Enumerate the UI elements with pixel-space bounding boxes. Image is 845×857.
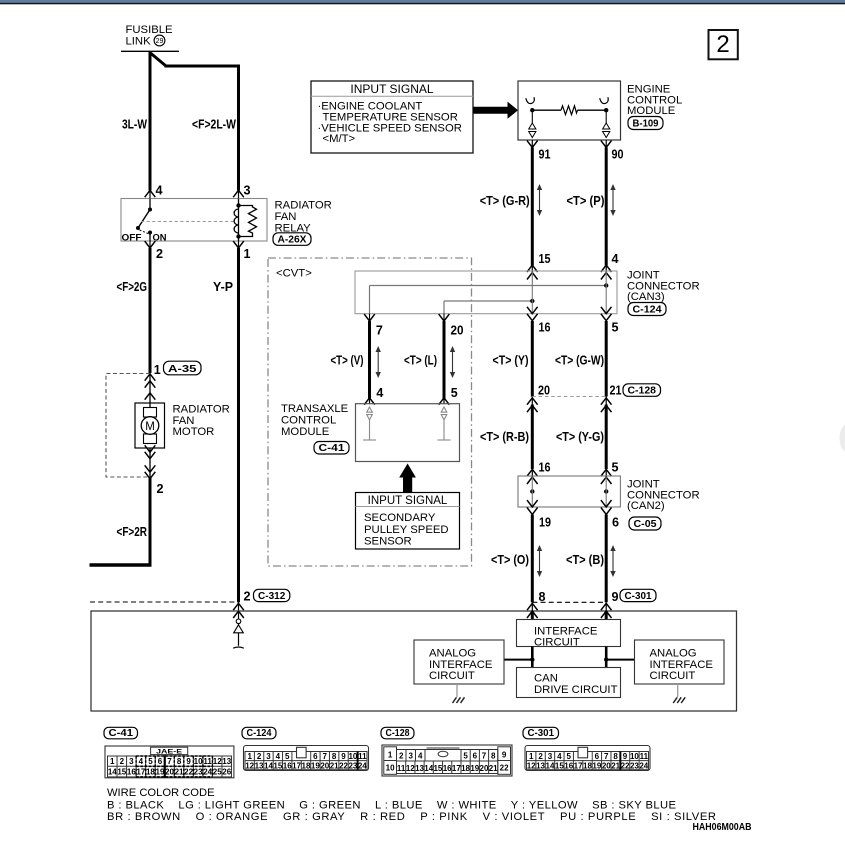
svg-text:9: 9 (341, 752, 346, 761)
harness arrow O (537, 545, 542, 577)
radiator fan relay box (121, 199, 267, 242)
connector pill C-124 bottom (242, 727, 276, 739)
svg-text:ANALOG: ANALOG (429, 648, 476, 660)
svg-text:RADIATOR: RADIATOR (173, 404, 230, 416)
svg-text:17: 17 (574, 761, 583, 770)
ECM terminal curl left (526, 97, 535, 103)
svg-text:21: 21 (175, 768, 184, 777)
svg-text:5: 5 (567, 752, 572, 761)
svg-text:1: 1 (110, 757, 115, 766)
svg-text:<T> (G-R): <T> (G-R) (480, 194, 530, 208)
meter junction dots (530, 657, 534, 661)
svg-text:4: 4 (418, 752, 423, 761)
C-128 chevrons left (527, 398, 538, 405)
relay coil wire (238, 199, 240, 242)
connector pill B-109 (628, 117, 663, 130)
svg-text:WIRE COLOR CODE: WIRE COLOR CODE (107, 787, 215, 799)
input signal title rule (311, 95, 473, 97)
svg-text:C-41: C-41 (109, 728, 134, 739)
meter wires from pins 8/9 (531, 602, 533, 611)
svg-text:2: 2 (244, 590, 251, 604)
ECM terminal dots (530, 108, 534, 112)
svg-text:4: 4 (276, 752, 281, 761)
motor dashed enclosure (106, 374, 150, 478)
svg-text:INTERFACE: INTERFACE (534, 625, 598, 637)
svg-text:13: 13 (536, 761, 545, 770)
svg-text:3: 3 (548, 752, 553, 761)
svg-text:4: 4 (376, 386, 383, 400)
svg-text:6: 6 (313, 752, 318, 761)
svg-text:5: 5 (148, 757, 153, 766)
connector pill C-41 (314, 442, 349, 455)
svg-text:(CAN2): (CAN2) (627, 500, 665, 512)
input signal box bottom (356, 493, 460, 550)
page dashed boundary left (90, 601, 239, 603)
svg-text:MOTOR: MOTOR (173, 426, 215, 438)
svg-text:C-128: C-128 (386, 728, 410, 739)
svg-text:11: 11 (397, 764, 406, 773)
connector pill C-312 (254, 589, 290, 601)
CAN2 pass-through thin wires (531, 477, 533, 507)
svg-text:22: 22 (500, 764, 509, 773)
relay resistor (239, 206, 257, 237)
svg-text:5: 5 (612, 321, 619, 335)
svg-text:13: 13 (415, 764, 424, 773)
TCM internal symbol right (438, 407, 451, 440)
ECM pin chevrons (531, 140, 533, 148)
svg-text:17: 17 (136, 768, 145, 777)
svg-text:21: 21 (610, 383, 622, 397)
fusible link circled 29 (154, 35, 165, 46)
C-128 chevrons right (601, 398, 612, 405)
svg-text:<T> (R-B): <T> (R-B) (480, 430, 529, 444)
svg-text:FAN: FAN (275, 211, 297, 223)
svg-text:15: 15 (273, 761, 282, 770)
ECM shield triangles right (605, 110, 607, 123)
svg-text:2: 2 (156, 247, 163, 261)
svg-text:<T> (G-W): <T> (G-W) (555, 354, 604, 368)
svg-text:<T> (P): <T> (P) (567, 194, 605, 208)
svg-text:6: 6 (158, 757, 163, 766)
C-312 chevrons (233, 603, 244, 610)
CVT dash-dot enclosure (268, 258, 472, 566)
wire Y-P (237, 248, 240, 602)
ECM shield triangles left (531, 110, 533, 123)
svg-text:DRIVE CIRCUIT: DRIVE CIRCUIT (534, 684, 618, 696)
svg-text:3L-W: 3L-W (122, 118, 147, 132)
svg-text:<T> (L): <T> (L) (404, 354, 437, 368)
page dashed boundary right (532, 601, 606, 603)
ground right analog (673, 684, 685, 703)
svg-text:5: 5 (285, 752, 290, 761)
motor circle M (141, 417, 159, 435)
svg-text:ANALOG: ANALOG (650, 648, 697, 660)
svg-text:INTERFACE: INTERFACE (650, 659, 714, 671)
svg-text:4: 4 (557, 752, 562, 761)
svg-text:2: 2 (257, 752, 262, 761)
relay switch contact dots (148, 208, 152, 212)
harness arrow B (610, 545, 615, 577)
svg-text:10: 10 (348, 752, 357, 761)
harness arrow G-R (537, 184, 542, 216)
svg-text:17: 17 (292, 761, 301, 770)
svg-text:11: 11 (358, 752, 367, 761)
meter outer box (91, 611, 737, 711)
connector pill C-128 mid (623, 384, 661, 397)
svg-text:3: 3 (266, 752, 271, 761)
svg-text:<M/T>: <M/T> (323, 133, 356, 145)
svg-text:15: 15 (539, 252, 551, 266)
svg-text:TRANSAXLE: TRANSAXLE (281, 403, 349, 415)
node pin1 A-35 chevrons (145, 374, 156, 381)
svg-text:13: 13 (222, 757, 231, 766)
svg-text:20: 20 (451, 324, 464, 338)
svg-text:11: 11 (203, 757, 212, 766)
svg-text:MODULE: MODULE (281, 426, 330, 438)
TCM wire 7 chevron (369, 314, 371, 322)
wire to left edge (90, 563, 152, 566)
ECM terminal curl right (600, 97, 609, 103)
joint connector CAN3 box (355, 271, 617, 314)
chevron above motor (145, 393, 156, 400)
harness arrow V (376, 346, 381, 378)
svg-text:<T> (Y-G): <T> (Y-G) (556, 430, 604, 444)
ground bar (233, 647, 244, 648)
svg-text:9: 9 (186, 757, 191, 766)
can drive circuit box (517, 668, 621, 698)
svg-text:C-312: C-312 (258, 591, 286, 602)
svg-text:18: 18 (583, 761, 592, 770)
svg-text:23: 23 (630, 761, 639, 770)
svg-text:FUSIBLE: FUSIBLE (126, 24, 174, 36)
TCM wire 20 chevron (443, 314, 445, 322)
svg-text:6: 6 (473, 752, 478, 761)
svg-text:C-124: C-124 (633, 304, 662, 316)
relay internal dashed link (141, 221, 234, 223)
connector pill A-35 (164, 361, 202, 375)
motor brush top (144, 408, 157, 418)
svg-text:2: 2 (120, 757, 125, 766)
svg-text:RADIATOR: RADIATOR (275, 200, 332, 212)
svg-text:4: 4 (156, 184, 163, 198)
svg-text:2: 2 (157, 482, 164, 496)
svg-text:3: 3 (129, 757, 134, 766)
svg-text:25: 25 (213, 768, 222, 777)
svg-text:<F>2R: <F>2R (117, 525, 148, 539)
svg-text:20: 20 (538, 383, 550, 397)
svg-text:8: 8 (539, 590, 546, 604)
CAN3 pass-through thin wires (531, 272, 533, 314)
svg-text:7: 7 (376, 324, 383, 338)
svg-text:<T> (B): <T> (B) (566, 553, 604, 567)
svg-text:C-301: C-301 (625, 591, 653, 602)
CAN3 bus line A (370, 285, 607, 287)
svg-text:19: 19 (539, 516, 551, 530)
CAN3 bus dots (604, 283, 608, 287)
svg-text:A-26X: A-26X (278, 234, 307, 246)
svg-text:1: 1 (388, 751, 393, 760)
svg-text:2: 2 (538, 752, 543, 761)
TCM wire left (368, 321, 371, 399)
relay switch blade (138, 210, 150, 229)
svg-text:14: 14 (424, 764, 433, 773)
wire below C-312 (238, 603, 240, 646)
svg-text:5: 5 (451, 386, 458, 400)
svg-text:24: 24 (639, 761, 648, 770)
svg-text:<T> (Y): <T> (Y) (493, 354, 529, 368)
svg-text:26: 26 (222, 768, 231, 777)
svg-text:14: 14 (546, 761, 555, 770)
svg-text:15: 15 (117, 768, 126, 777)
connector pill C-301 mid (620, 589, 656, 601)
svg-text:CIRCUIT: CIRCUIT (650, 670, 696, 682)
svg-text:3: 3 (244, 184, 251, 198)
header black rule (0, 3, 845, 5)
svg-text:HAH06M00AB: HAH06M00AB (693, 822, 752, 833)
chevrons at dashed junction (145, 465, 156, 472)
svg-text:3: 3 (409, 752, 414, 761)
wire 3L-W vertical (149, 51, 152, 190)
svg-text:16: 16 (564, 761, 573, 770)
svg-text:C-301: C-301 (528, 728, 555, 739)
ground left analog (453, 684, 465, 703)
CAN2 exit chevrons (527, 500, 538, 507)
svg-text:7: 7 (604, 752, 609, 761)
svg-text:21: 21 (330, 761, 339, 770)
svg-text:9: 9 (502, 751, 507, 760)
svg-text:C-05: C-05 (634, 518, 657, 530)
svg-text:23: 23 (348, 761, 357, 770)
relay connector pill A-26X (273, 233, 311, 246)
svg-text:INTERFACE: INTERFACE (429, 659, 493, 671)
svg-text:10: 10 (194, 757, 203, 766)
svg-text:6: 6 (612, 516, 619, 530)
svg-text:6: 6 (595, 752, 600, 761)
svg-text:C-124: C-124 (247, 728, 272, 739)
svg-text:19: 19 (156, 768, 165, 777)
svg-text:JAE-E: JAE-E (156, 749, 183, 756)
relay switch dashed throw (140, 230, 149, 234)
pin 1 chevron (238, 241, 240, 249)
svg-text:CAN: CAN (534, 673, 558, 685)
svg-text:13: 13 (255, 761, 264, 770)
svg-text:7: 7 (167, 757, 172, 766)
svg-text:<T> (O): <T> (O) (491, 553, 529, 567)
svg-text:INPUT SIGNAL: INPUT SIGNAL (368, 495, 448, 507)
svg-text:BR : BROWN O : ORANGE GR: BR : BROWN O : ORANGE GR : GRAY R : RED … (107, 811, 716, 823)
svg-text:14: 14 (108, 768, 117, 777)
svg-text:10: 10 (630, 752, 639, 761)
ECM internal wire + resistor (532, 109, 561, 111)
svg-text:14: 14 (264, 761, 273, 770)
svg-text:<CVT>: <CVT> (276, 268, 312, 280)
svg-text:16: 16 (539, 321, 551, 335)
svg-text:M: M (145, 421, 155, 433)
svg-text:29: 29 (156, 38, 164, 45)
svg-text:5: 5 (463, 752, 468, 761)
svg-text:2: 2 (716, 31, 729, 58)
input signal box top (311, 81, 473, 153)
connector C-128 pinout (382, 745, 512, 776)
pin 2 chevron (149, 241, 151, 249)
CAN3 exit chevrons (527, 307, 538, 314)
joint connector CAN2 box (518, 476, 620, 507)
header blue bar (0, 0, 845, 3)
svg-text:7: 7 (323, 752, 328, 761)
svg-text:5: 5 (612, 461, 619, 475)
wire <F>2R (149, 477, 152, 567)
svg-text:Y-P: Y-P (213, 280, 233, 294)
svg-text:91: 91 (539, 148, 551, 162)
connector C-301 pinout (525, 746, 650, 771)
svg-text:8: 8 (177, 757, 182, 766)
svg-text:B : BLACK LG : LIGHT GREEN: B : BLACK LG : LIGHT GREEN G : GREEN L :… (107, 799, 676, 811)
svg-text:12: 12 (245, 761, 254, 770)
svg-text:C-128: C-128 (628, 386, 657, 397)
svg-text:8: 8 (613, 752, 618, 761)
wire branch diagonal (149, 52, 166, 66)
svg-text:17: 17 (452, 764, 461, 773)
faint ui blob right edge (840, 425, 845, 452)
transaxle control module box (356, 404, 460, 462)
wire 2L-W vertical (237, 65, 240, 191)
connector pill C-301 bottom (523, 727, 559, 739)
svg-text:22: 22 (621, 761, 630, 770)
CAN wire left (x=532) (531, 148, 534, 266)
svg-text:20: 20 (480, 764, 489, 773)
svg-text:1: 1 (247, 752, 252, 761)
svg-text:22: 22 (339, 761, 348, 770)
svg-text:1: 1 (244, 247, 251, 261)
relay coil dots (236, 203, 240, 207)
svg-text:7: 7 (482, 752, 487, 761)
svg-text:9: 9 (623, 752, 628, 761)
svg-text:16: 16 (539, 461, 551, 475)
svg-text:CIRCUIT: CIRCUIT (429, 670, 475, 682)
svg-text:1: 1 (529, 752, 534, 761)
wire below motor (149, 448, 151, 479)
svg-text:8: 8 (332, 752, 337, 761)
harness arrow P (610, 184, 615, 216)
CAN3 entry chevrons (527, 265, 538, 272)
analog link left (504, 659, 533, 661)
input signal arrow to ECM (473, 102, 518, 119)
pin 3 chevron (233, 190, 244, 197)
svg-text:MODULE: MODULE (627, 105, 676, 117)
svg-text:10: 10 (386, 764, 395, 773)
svg-text:4: 4 (612, 252, 619, 266)
svg-text:<F>2L-W: <F>2L-W (192, 118, 236, 132)
TCM input arrow (399, 464, 416, 493)
C-41 JAE-E label (151, 747, 188, 754)
svg-text:(CAN3): (CAN3) (627, 291, 665, 303)
svg-text:9: 9 (612, 590, 619, 604)
svg-text:18: 18 (146, 768, 155, 777)
svg-text:4: 4 (139, 757, 144, 766)
svg-text:22: 22 (184, 768, 193, 777)
svg-text:18: 18 (302, 761, 311, 770)
svg-text:20: 20 (320, 761, 329, 770)
CAN3 bus line B (444, 300, 532, 302)
analog interface circuit right box (635, 640, 725, 684)
svg-text:SENSOR: SENSOR (364, 536, 412, 548)
ground triangle (234, 625, 244, 633)
svg-text:24: 24 (203, 768, 212, 777)
svg-text:11: 11 (640, 752, 649, 761)
connector C-41 pinout (105, 746, 234, 778)
svg-text:A-35: A-35 (168, 363, 197, 375)
svg-text:SECONDARY: SECONDARY (364, 512, 436, 524)
C-128 inline dashed (532, 396, 606, 398)
svg-text:19: 19 (470, 764, 479, 773)
connector pill C-05 (629, 517, 661, 530)
svg-text:CONTROL: CONTROL (281, 415, 336, 427)
relay switch stub bottom (149, 233, 151, 242)
harness arrow L (450, 346, 455, 378)
connector pill C-41 bottom (104, 727, 138, 739)
svg-text:12: 12 (406, 764, 415, 773)
wire branch horizontal to 2L-W (165, 65, 241, 68)
interface circuit box (517, 620, 621, 647)
TCM wire right (443, 321, 446, 399)
meter internal wires (531, 647, 534, 668)
svg-text:B-109: B-109 (633, 118, 659, 130)
svg-text:24: 24 (358, 761, 367, 770)
chevrons below motor (145, 445, 156, 452)
svg-text:INPUT SIGNAL: INPUT SIGNAL (350, 82, 433, 96)
svg-text:C-41: C-41 (319, 442, 345, 454)
svg-text:18: 18 (461, 764, 470, 773)
svg-text:90: 90 (612, 148, 624, 162)
svg-text:20: 20 (165, 768, 174, 777)
relay switch stub top (149, 199, 151, 210)
engine control module box B-109 (518, 81, 621, 140)
CAN2 entry chevrons (527, 469, 538, 476)
svg-text:<T> (V): <T> (V) (331, 354, 364, 368)
svg-text:19: 19 (311, 761, 320, 770)
page number box 2 (709, 30, 738, 59)
ground bolt circle (236, 619, 241, 624)
radiator fan motor box (135, 403, 165, 448)
connector pill C-124 (628, 303, 666, 316)
motor brush bottom (144, 434, 157, 444)
svg-text:12: 12 (527, 761, 536, 770)
wire to motor (149, 374, 151, 408)
svg-text:19: 19 (592, 761, 601, 770)
svg-text:23: 23 (194, 768, 203, 777)
CAN wire right (x=606) (605, 148, 608, 266)
svg-text:PULLEY SPEED: PULLEY SPEED (364, 524, 449, 536)
svg-text:8: 8 (491, 752, 496, 761)
svg-text:15: 15 (433, 764, 442, 773)
svg-text:21: 21 (611, 761, 620, 770)
svg-text:<F>2G: <F>2G (117, 280, 148, 294)
wire <F>2G (149, 248, 152, 373)
svg-text:2: 2 (399, 752, 404, 761)
svg-text:CIRCUIT: CIRCUIT (534, 637, 580, 649)
svg-text:OFF: OFF (122, 233, 142, 244)
connector C-124 pinout (244, 746, 369, 771)
svg-text:FAN: FAN (173, 415, 195, 427)
TCM internal symbol left (363, 407, 376, 440)
svg-text:21: 21 (489, 764, 498, 773)
svg-text:15: 15 (555, 761, 564, 770)
svg-text:LINK: LINK (126, 36, 152, 48)
connector pill C-128 bottom (381, 727, 414, 739)
svg-text:16: 16 (283, 761, 292, 770)
TCM entry chevrons (364, 398, 375, 405)
input signal rule bottom (356, 506, 460, 508)
